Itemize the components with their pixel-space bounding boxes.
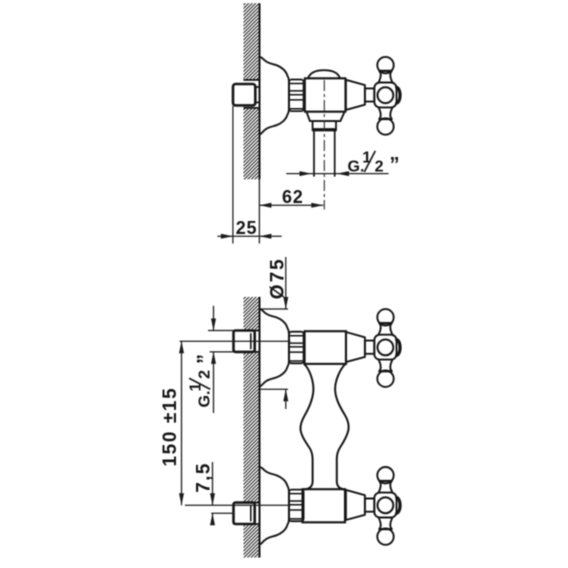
svg-text:150 ±15: 150 ±15 (160, 387, 181, 467)
square wall-union nut behind wall, top figure (233, 84, 259, 105)
svg-text:G.: G. (197, 391, 214, 408)
svg-text:62: 62 (282, 187, 304, 207)
thread callout G.1/2 inch, bottom figure: extension and leader lines (208, 306, 234, 413)
bottom inlet union nut, bottom figure (234, 503, 260, 524)
thread callout G.1/2 inch, top figure: leader line (286, 173, 388, 175)
wall section (hatched), side view, top figure (244, 3, 260, 179)
dimension diameter 75: up arrowhead (283, 389, 288, 401)
svg-text:2: 2 (375, 158, 384, 175)
shaped central column connecting the two valves (300, 364, 348, 489)
svg-text:1: 1 (188, 383, 205, 392)
thread callout G.1/2 inch, bottom figure: rotated label text (188, 354, 217, 408)
bottom cross handle, bottom figure (346, 467, 400, 545)
svg-text:”: ” (194, 354, 216, 364)
thread callout G.1/2 inch, bottom figure: up arrowhead (211, 352, 216, 364)
dashed centerline of outlet pipe, top figure (323, 80, 325, 210)
thread callout G.1/2 inch, top figure: label text (348, 149, 400, 176)
bottom ribbed collar, bottom figure (289, 490, 304, 522)
svg-text:7,5: 7,5 (193, 462, 214, 493)
bottom escutcheon bell, bottom figure (260, 467, 289, 545)
thread callout G.1/2 inch, bottom figure: down arrowhead (211, 319, 216, 331)
dimension diameter 75: down arrowhead (283, 297, 288, 309)
dimension 25: right arrowhead (259, 234, 271, 239)
dimension 62: extension and dimension lines (233, 106, 323, 244)
svg-text:Ø75: Ø75 (268, 257, 289, 299)
svg-text:”: ” (390, 154, 400, 176)
dimension 7,5 offset: extension and leader lines (211, 462, 233, 525)
dimension 62: right arrowhead (311, 203, 323, 208)
top inlet union nut, bottom figure (234, 331, 260, 352)
valve body with dome, flange and outlet pipe, top figure (305, 70, 346, 176)
thread callout G.1/2 inch, top figure: fraction slash (364, 151, 375, 172)
dimension diameter 75: extension lines and leader (260, 257, 289, 409)
dimension 150 plus-minus 15: top arrowhead (179, 341, 184, 353)
top escutcheon bell, bottom figure (260, 309, 289, 387)
top valve body, bottom figure (305, 331, 346, 364)
escutcheon bell, top figure (260, 57, 289, 135)
dimension 25: left arrowhead (221, 234, 233, 239)
dimension 25: dimension line (217, 235, 281, 237)
wall section (hatched), bottom figure (244, 297, 260, 558)
svg-text:1: 1 (362, 149, 371, 166)
dimension 7,5 offset: up arrowhead (210, 513, 215, 525)
dimension 7,5 offset: down arrowhead (210, 493, 215, 505)
dimension 150 plus-minus 15: bottom arrowhead (179, 493, 184, 505)
ribbed collar, top figure (289, 80, 304, 112)
top cross handle, bottom figure (346, 309, 400, 387)
svg-text:2: 2 (197, 370, 214, 379)
thread callout G.1/2 inch, top figure: right arrowhead (337, 171, 349, 176)
top ribbed collar, bottom figure (289, 332, 304, 364)
dimension 62: left arrowhead (259, 203, 271, 208)
svg-text:25: 25 (236, 218, 258, 238)
cross handle, top figure (346, 57, 400, 135)
bottom valve body, bottom figure (303, 489, 346, 522)
thread callout G.1/2 inch, top figure: left arrowhead (300, 171, 312, 176)
dimension 150 plus-minus 15: extension and dimension lines (180, 341, 291, 505)
